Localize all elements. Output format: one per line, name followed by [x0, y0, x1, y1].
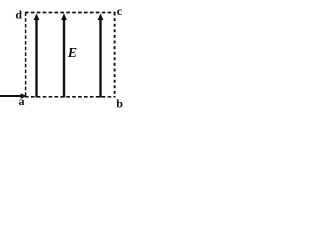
entry arrow at corner a (horizontal, pointing right)	[0, 93, 27, 99]
svg-text:b: b	[116, 97, 123, 111]
field line arrow 1 (left, pointing up)	[34, 13, 40, 97]
dashed field-region boundary: top edge d-c	[25, 12, 115, 14]
field line arrow 3 (right, pointing up)	[98, 13, 104, 97]
svg-text:d: d	[15, 8, 22, 22]
field line arrow 2 (middle, pointing up)	[61, 13, 67, 97]
svg-text:c: c	[117, 4, 123, 18]
svg-text:a: a	[19, 94, 25, 108]
svg-text:E: E	[67, 46, 77, 61]
dashed field-region boundary: bottom edge a-b	[25, 96, 115, 98]
dashed field-region boundary: right edge c-b	[114, 13, 116, 98]
dashed field-region boundary: left edge d-a	[25, 13, 27, 97]
background	[0, 0, 129, 111]
